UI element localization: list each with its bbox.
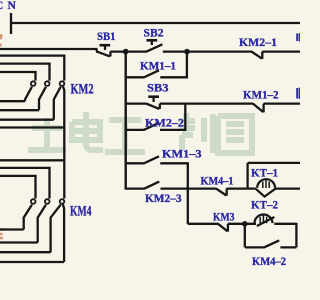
contact KM2 pole2 blade (39, 87, 46, 110)
wire: KM4 loop bottom middle (0, 241, 38, 243)
contact KM2 pole3 blade (54, 87, 61, 120)
wire: row7 corner from junction column (188, 223, 219, 225)
pushbutton SB2 (NO start) (147, 40, 163, 51)
wire: KM2 loop bottom outer (0, 119, 54, 121)
wire: KM2 loop bottom middle (0, 109, 39, 111)
contact KM2-1 (NC) (251, 52, 262, 59)
wire: KM4 pole3 feed down (63, 204, 64, 262)
watermark 土 (28, 118, 66, 150)
watermark 图 (218, 116, 252, 153)
wire: row4 latch branch left (126, 129, 144, 131)
wire: KM2 pole3 feed down (63, 87, 64, 161)
svg-text:SB3: SB3 (147, 81, 169, 95)
svg-text:KM2: KM2 (71, 82, 94, 98)
svg-text:KM3: KM3 (213, 210, 235, 224)
junction node row7 (242, 221, 248, 227)
wire: KM2 loop top middle (0, 64, 50, 81)
wire: drop from row7 junction (244, 224, 246, 248)
contact KM2-2 (NO latch) (144, 123, 159, 130)
wire: row6 left from rail (126, 187, 144, 189)
wire: row5 right (160, 162, 189, 164)
contact KM2-3 (NO) (144, 182, 159, 189)
watermark 制 (179, 113, 213, 153)
svg-text:KT–2: KT–2 (251, 198, 278, 212)
svg-text:KM1–2: KM1–2 (243, 88, 279, 102)
wire: vertical junction column x=188 (187, 163, 189, 224)
wire: KM2 loop top inner (0, 72, 36, 81)
wire: left control rail (124, 52, 126, 190)
wire: KM2 loop bottom inner (0, 100, 25, 102)
wire: KM2 outer bottom loop (0, 126, 64, 128)
wire: row1 to right edge (262, 50, 300, 52)
contact KM1-1 (NO latch) (144, 70, 159, 77)
red watermark fragment left edge bottom (0, 230, 4, 239)
svg-text:KT–1: KT–1 (251, 166, 278, 180)
wire: main row KT-1 to right edge (275, 187, 300, 189)
wire: KT-1 upper branch vertical (246, 163, 248, 189)
contact KM4 pole1 terminal (31, 199, 36, 204)
wire: KM2 loop top outer (0, 56, 64, 81)
wire: vertical row3-row4 (184, 104, 186, 130)
label fragment right edge row1 (297, 33, 300, 42)
svg-text:SB1: SB1 (97, 29, 116, 43)
wire: row3 middle (160, 102, 254, 104)
contact KM2 pole3 terminal (60, 81, 65, 86)
wire: KM4 loop bottom inner (0, 228, 24, 230)
wire: KM4 loop top outer (0, 160, 64, 198)
wire: row1 from SB2 to KM2-1 (163, 50, 252, 52)
wire: row7 middle (228, 223, 256, 225)
contact KM4 pole2 terminal (45, 199, 50, 204)
wire: KM4 outer bottom loop (0, 261, 64, 263)
wire: row1 from SB1 to SB2 (110, 50, 147, 52)
wire: row3 left from rail (126, 102, 147, 104)
pushbutton SB1 (NC) (97, 45, 111, 56)
svg-text:KM4–2: KM4–2 (252, 254, 286, 268)
svg-text:C: C (0, 0, 3, 12)
wire: row3 to right edge (264, 102, 300, 104)
svg-text:KM1–3: KM1–3 (162, 147, 202, 161)
contact KM4 pole3 blade (51, 205, 61, 253)
wire: row2 latch branch left (126, 76, 144, 78)
contact KM1-3 (NO) (144, 156, 159, 163)
contact KM4 pole2 blade (38, 205, 46, 243)
junction node after SB2 (184, 49, 190, 55)
contact KM4-1 (NC) (216, 188, 227, 195)
red watermark fragment left edge top (0, 36, 3, 46)
contact KM2 pole2 terminal (45, 81, 50, 86)
watermark 电 (72, 112, 103, 150)
wire: N drop vertical (10, 13, 12, 34)
contact KM4 pole3 terminal (60, 199, 65, 204)
wire: KM4-2 loop bottom right part (280, 246, 296, 248)
svg-text:KM2–1: KM2–1 (239, 35, 277, 49)
wire: KM4-2 loop bottom left part (245, 246, 264, 248)
wire: row1 left segment from C (0, 49, 98, 52)
contact KM2 pole1 terminal (31, 81, 36, 86)
timer contact KT-2 (NO delayed, dome above) (255, 215, 275, 227)
contact KM1-2 (NC) (253, 104, 264, 113)
wire: vertical row1-row2 (186, 52, 188, 78)
wire: row5 left from rail (126, 162, 144, 164)
contact KM2 pole1 blade (25, 87, 32, 101)
svg-text:KM4: KM4 (70, 204, 92, 220)
label fragment right edge row3 (297, 88, 300, 100)
contact KM4-2 (NO) (264, 240, 280, 247)
wire: row4 right to vertical (160, 129, 186, 131)
svg-text:KM4–1: KM4–1 (201, 174, 234, 188)
junction node at rail top (123, 49, 129, 55)
wire: KM4 loop top middle (0, 168, 50, 199)
watermark 工 (105, 120, 145, 152)
wire: KM4 loop top inner (0, 176, 36, 199)
wire: N horizontal bus y=23 (10, 22, 300, 24)
svg-text:SB2: SB2 (144, 26, 164, 40)
svg-text:KM2–2: KM2–2 (145, 116, 184, 130)
timer contact KT-1 (NC delayed, dome above) (256, 179, 275, 196)
svg-text:KM2–3: KM2–3 (145, 191, 182, 205)
wire: KM4 loop bottom outer (0, 251, 51, 253)
wire: row7 right + corner down (274, 223, 296, 248)
wire: main row y=188.4 to KM4-1 (188, 187, 216, 189)
svg-text:N: N (8, 0, 17, 12)
wire: row2 right to vertical (160, 76, 188, 78)
wire: row6 right (161, 187, 189, 189)
pushbutton SB3 (NC) (146, 97, 160, 109)
contact KM3 (NC) (218, 224, 228, 232)
wire: KT-1 upper branch horizontal to right edge (248, 162, 300, 164)
svg-text:KM1–1: KM1–1 (140, 59, 176, 73)
contact KM4 pole1 blade (24, 205, 32, 230)
wire: main row to KT-1 (227, 187, 257, 189)
